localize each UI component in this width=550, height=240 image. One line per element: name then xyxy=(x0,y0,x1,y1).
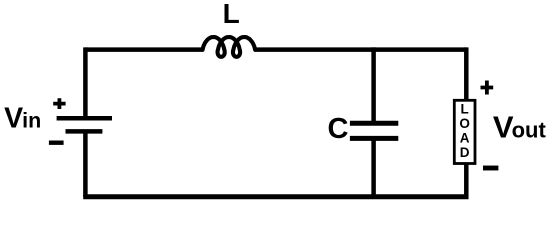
load box RL xyxy=(454,100,475,163)
svg-text:Vout: Vout xyxy=(493,110,547,145)
wire capacitor branch upper xyxy=(371,47,376,123)
plus sign at output xyxy=(481,81,494,95)
wire right vertical lower segment xyxy=(464,164,469,200)
minus sign at output xyxy=(483,166,498,171)
capacitor C1 top plate xyxy=(350,121,398,126)
plus sign at battery xyxy=(53,98,65,109)
wire top-left horizontal segment xyxy=(85,47,203,52)
wire top-right horizontal segment xyxy=(255,47,467,52)
svg-text:O: O xyxy=(459,116,470,131)
battery V1 negative plate (short) xyxy=(66,129,103,134)
svg-text:Vin: Vin xyxy=(4,103,41,135)
svg-text:L: L xyxy=(460,102,468,117)
load letters L O A D xyxy=(459,102,470,161)
minus sign at battery xyxy=(49,140,64,144)
svg-text:C: C xyxy=(328,113,349,145)
wire bottom horizontal xyxy=(83,194,468,199)
battery V1 positive plate (long) xyxy=(57,116,112,121)
wire right vertical upper segment xyxy=(464,47,469,100)
svg-text:A: A xyxy=(460,131,470,146)
wire capacitor branch lower xyxy=(371,138,376,199)
wire left vertical upper segment xyxy=(83,47,88,118)
wire left vertical lower segment xyxy=(83,131,88,196)
svg-text:L: L xyxy=(223,0,240,29)
svg-text:D: D xyxy=(460,145,470,160)
capacitor C1 bottom plate xyxy=(350,136,398,141)
inductor L1 coil xyxy=(203,37,256,57)
